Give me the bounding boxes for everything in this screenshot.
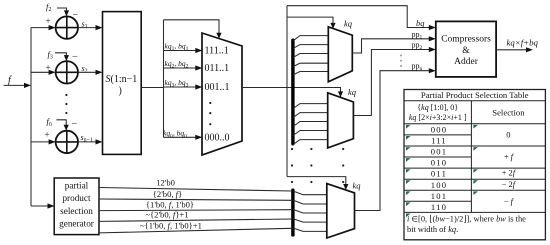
wire f3 into adder2 (55, 53, 69, 61)
svg-text:{kq [1:0], 0}: {kq [1:0], 0} (417, 103, 458, 112)
mux2 input fan (293, 104, 328, 145)
wire mux1 output to pp1 (352, 36, 436, 53)
node sn-1 label (81, 133, 94, 144)
svg-text:0: 0 (506, 130, 510, 139)
adder A3 (56, 131, 78, 153)
node kq2 bq2 label (165, 59, 189, 70)
block Compressors and Adder (436, 21, 496, 77)
node ppn label (412, 62, 423, 73)
wire gen line2 {2'b0, f} (99, 189, 292, 201)
svg-text:partial: partial (65, 181, 89, 191)
svg-text:Compressors: Compressors (441, 35, 491, 45)
table header selection (492, 108, 525, 118)
node adder2 minus sign (72, 52, 78, 63)
svg-text:+: + (46, 63, 51, 73)
wire adder1 to S (78, 25, 103, 30)
node kq label mux1 (344, 19, 353, 29)
node kq3 bq3 label (165, 78, 189, 89)
svg-text:12'b0: 12'b0 (156, 177, 175, 187)
svg-text:+ 2f: + 2f (502, 169, 517, 178)
wire kq3 bq3 (164, 84, 203, 89)
svg-text:001..1: 001..1 (205, 82, 230, 93)
table Partial Product Selection Table (404, 90, 545, 240)
svg-text:Selection: Selection (492, 108, 525, 118)
wire mux3 select (287, 177, 348, 190)
svg-text:{2'b0, f}: {2'b0, f} (153, 189, 182, 199)
wire kq1 bq1 (164, 48, 203, 53)
node adder2 plus sign (46, 63, 51, 73)
wire kqn bqn (164, 135, 203, 140)
wire gen line5 ~{1'b0, f, 1'b0}+1 (99, 221, 292, 233)
svg-text:−: − (72, 52, 78, 63)
wire S output (141, 87, 163, 89)
bus bar upper (291, 39, 294, 146)
svg-text:101: 101 (431, 191, 448, 201)
svg-text:010: 010 (431, 158, 448, 168)
mux M2 (328, 93, 354, 148)
wire f vertical trunk (30, 28, 32, 207)
wire kq trunk vertical (163, 20, 165, 138)
node kq label mux2 (348, 87, 357, 97)
svg-text:kq: kq (353, 181, 362, 191)
table row codes (431, 124, 448, 212)
svg-text:111..1: 111..1 (205, 46, 229, 57)
table header col1 (409, 103, 467, 122)
svg-text:selection: selection (60, 206, 93, 216)
node adder3 minus sign (72, 119, 78, 130)
svg-text:111: 111 (431, 136, 447, 146)
svg-text:Partial Product Selection Tabl: Partial Product Selection Table (421, 90, 529, 100)
wire fn into adder3 (57, 120, 69, 131)
node pp2 label (412, 41, 423, 52)
wire mux3 output to ppn (355, 68, 436, 210)
wire bq top loop (287, 6, 436, 30)
svg-text:000: 000 (431, 124, 448, 134)
table footnote (407, 214, 526, 234)
wire gen line1 12'b0 (99, 177, 292, 191)
wire adder1 input (31, 25, 56, 30)
wire kq distribution trunk (286, 6, 288, 177)
node fn label (47, 116, 52, 128)
svg-text:&: & (462, 46, 470, 56)
block partial product selection generator (54, 178, 99, 235)
node s2 label (82, 64, 88, 75)
svg-text:i ∈[0, ⌊(bw−1)/2⌋], where bw i: i ∈[0, ⌊(bw−1)/2⌋], where bw is the (407, 214, 526, 223)
mux3 input fan (293, 191, 327, 231)
svg-text:kq×f+bq: kq×f+bq (507, 37, 539, 47)
table green corner triangles col2 (473, 125, 478, 195)
adder A2 (56, 61, 78, 83)
wire gen line4 ~{2'b0, f}+1 (99, 210, 292, 222)
wire final output (496, 47, 533, 52)
svg-text:kq: kq (344, 19, 353, 29)
mux1 input fan (293, 36, 328, 75)
svg-text:~{2'b0, f}+1: ~{2'b0, f}+1 (145, 210, 188, 220)
svg-text:bit width of kq.: bit width of kq. (407, 225, 458, 234)
node f2 label (46, 2, 51, 14)
svg-text:bq: bq (416, 19, 424, 28)
wire f2 into adder1 (57, 8, 69, 16)
wire trunk to generator (31, 203, 55, 208)
svg-text:kq [2×i+3:2×i+1 ]: kq [2×i+3:2×i+1 ] (409, 113, 467, 122)
wire adder2 input (31, 70, 56, 75)
svg-text:011: 011 (431, 169, 447, 179)
node kq x f + bq label (507, 37, 539, 47)
block S(1:n-1) (103, 12, 142, 155)
svg-text:): ) (119, 86, 122, 97)
svg-text:−: − (72, 119, 78, 130)
wire adder3 to S (78, 139, 103, 144)
svg-text:− 2f: − 2f (502, 180, 517, 189)
wire select loop to big mux top (164, 20, 222, 39)
node kq1 bq1 label (165, 42, 189, 53)
svg-text:+: + (45, 130, 50, 140)
node kq label mux3 (353, 181, 362, 191)
wire adder2 to S (78, 70, 103, 75)
wire f input arrow (4, 83, 31, 88)
mux M3 (327, 184, 355, 238)
node s1 label (82, 20, 88, 31)
svg-text:kq: kq (348, 87, 357, 97)
svg-text:000..0: 000..0 (205, 132, 230, 143)
svg-text:110: 110 (431, 202, 447, 212)
node adder1 plus sign (46, 16, 51, 26)
wire gen line3 {1'b0, f, 1'b0} (99, 199, 292, 210)
svg-text:100: 100 (431, 180, 448, 190)
node pp1 label (412, 30, 423, 41)
node f3 label (48, 49, 53, 61)
dots repetition grid (291, 148, 344, 183)
dots between adders (65, 94, 67, 114)
svg-text:S(1:n−1: S(1:n−1 (106, 74, 138, 85)
mux M0 big selector (202, 33, 242, 155)
node kqn bqn label (163, 128, 187, 139)
dots pp ellipsis (400, 55, 402, 68)
mux M1 (328, 27, 352, 82)
svg-text:~{1'b0, f, 1'b0}+1: ~{1'b0, f, 1'b0}+1 (140, 221, 202, 231)
svg-text:Adder: Adder (454, 57, 479, 67)
table selection values (502, 130, 517, 206)
node f input label (8, 75, 12, 86)
table title (421, 90, 529, 100)
svg-text:011..1: 011..1 (205, 63, 230, 74)
svg-text:generator: generator (59, 219, 94, 229)
wire adder3 input (31, 139, 56, 144)
svg-text:+: + (46, 16, 51, 26)
bus bar lower (291, 189, 294, 237)
wire mux1 select (287, 17, 336, 29)
node adder1 minus sign (73, 10, 79, 21)
table green corner triangles col1 (406, 125, 411, 217)
svg-text:{1'b0, f, 1'b0}: {1'b0, f, 1'b0} (146, 199, 194, 209)
node bq label (416, 19, 424, 28)
svg-text:product: product (62, 193, 91, 203)
wire kq2 bq2 (164, 65, 203, 70)
node adder3 plus sign (45, 130, 50, 140)
wire mux2 output to pp2 (353, 47, 435, 116)
wire big mux output to mux2 select (242, 88, 343, 98)
adder A1 (56, 16, 78, 38)
svg-text:001: 001 (431, 147, 448, 157)
